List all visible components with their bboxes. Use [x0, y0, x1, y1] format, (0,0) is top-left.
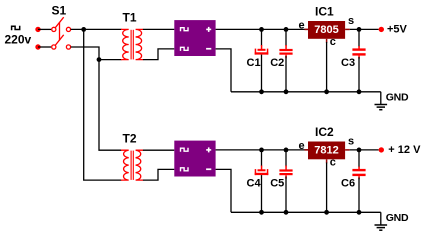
transformer T1 [121, 29, 143, 59]
voltage regulator IC1 7805 [305, 21, 350, 43]
svg-text:7812: 7812 [314, 145, 338, 157]
junction at IC2 output / C6 [357, 148, 362, 153]
junction on +rail2 at C5 [284, 148, 289, 153]
junction node A on top primary wire [81, 27, 86, 32]
wire: T1 secondary bottom to bridge input [143, 49, 174, 60]
wire: C3 bottom lead [358, 57, 360, 92]
junction on ground rail at C2 [284, 89, 289, 94]
junction on +rail at C2 [284, 27, 289, 32]
wire: C3 top lead [358, 29, 360, 46]
svg-text:C6: C6 [341, 177, 355, 189]
svg-text:C1: C1 [247, 57, 261, 69]
capacitor C5 [279, 166, 292, 179]
wire: C6 top lead [358, 150, 360, 167]
bridge rectifier BR2 [174, 141, 215, 177]
junction on ground rail at C1 [259, 89, 264, 94]
ground symbol GND2 [375, 212, 388, 230]
svg-text:C5: C5 [270, 177, 284, 189]
wire: C2 top lead [285, 29, 287, 46]
svg-text:C2: C2 [270, 57, 284, 69]
wire: C1 bottom lead [261, 55, 263, 92]
node: AC input terminal top (red dot) [35, 27, 40, 32]
svg-text:T2: T2 [123, 131, 137, 145]
svg-text:IC1: IC1 [315, 4, 334, 18]
capacitor C6 [352, 167, 365, 180]
capacitor C2 [279, 45, 292, 58]
svg-text:e: e [299, 140, 305, 152]
wire: bridge + output rail to IC1 input [216, 28, 308, 30]
junction on ground rail 2 at C5 [284, 210, 289, 215]
node: +12V output terminal (red dot) [379, 147, 384, 152]
svg-text:S1: S1 [52, 4, 67, 18]
wire: bridge - output down to ground rail [216, 49, 231, 92]
wire: C5 bottom lead [285, 177, 287, 213]
wire: bridge 2 - output down to ground rail 2 [216, 169, 231, 212]
svg-text:C3: C3 [341, 57, 355, 69]
svg-text:s: s [348, 15, 354, 27]
wire: node B to T1 primary bottom [99, 59, 122, 61]
wire: T1 secondary top to bridge input [143, 28, 174, 30]
node: +5V output terminal (red dot) [379, 27, 384, 32]
svg-text:IC2: IC2 [315, 125, 334, 139]
voltage regulator IC2 7812 [305, 142, 350, 164]
junction on +rail at C1 [259, 27, 264, 32]
transformer T2 [121, 150, 143, 180]
wire: C4 top lead [261, 150, 263, 166]
wire: T2 secondary top to bridge 2 input [143, 149, 174, 151]
svg-text:+ 12 V: + 12 V [388, 144, 421, 156]
svg-text:7805: 7805 [314, 24, 338, 36]
ground symbol GND1 [375, 92, 388, 110]
capacitor C3 [352, 46, 365, 59]
wire: IC1 common pin to ground rail [326, 42, 328, 92]
AC source tilde symbol [12, 26, 20, 31]
capacitor C4 (electrolytic) [255, 166, 269, 176]
switch S1 (DPST) [52, 17, 71, 49]
bridge rectifier BR1 [174, 20, 215, 56]
wire: IC1 output to +5V terminal [350, 28, 379, 30]
wire: switch pole1 contact to T1 primary top [71, 28, 122, 30]
wire: IC2 output to +12V terminal [350, 149, 379, 151]
wire: bridge 2 + output rail to IC2 input [216, 149, 308, 151]
wire: C2 bottom lead [285, 56, 287, 92]
wire: node A down to T2 primary bottom [84, 29, 122, 180]
node: AC input terminal bottom (red dot) [35, 44, 40, 49]
wire: bottom input dot to switch pole 2 [38, 46, 51, 48]
junction at IC1 output / C3 [357, 27, 362, 32]
wire: top input dot to switch pole 1 [38, 28, 51, 30]
wire: switch pole2 contact toward T1 primary bottom [71, 47, 99, 60]
svg-text:T1: T1 [123, 10, 137, 24]
wire: T2 secondary bottom to bridge 2 input [143, 169, 174, 180]
svg-text:+5V: +5V [387, 24, 408, 36]
svg-text:C4: C4 [247, 177, 262, 189]
junction on ground rail at C3 [357, 89, 362, 94]
wire: ground rail of top circuit [231, 91, 381, 93]
junction on ground rail at IC1 common [324, 89, 329, 94]
wire: C1 top lead [261, 29, 263, 45]
wire: C5 top lead [285, 150, 287, 167]
junction on ground rail 2 at C4 [259, 210, 264, 215]
capacitor C1 (electrolytic) [255, 45, 269, 55]
junction on ground rail 2 at C6 [357, 210, 362, 215]
svg-text:220v: 220v [5, 33, 32, 47]
svg-text:GND: GND [386, 92, 409, 104]
wire: IC2 common pin to ground rail 2 [326, 163, 328, 213]
wire: C6 bottom lead [358, 178, 360, 213]
junction on +rail2 at C4 [259, 148, 264, 153]
junction on ground rail 2 at IC2 common [324, 210, 329, 215]
svg-text:s: s [348, 135, 354, 147]
wire: ground rail of bottom circuit [231, 211, 381, 213]
wire: C4 bottom lead [261, 175, 263, 212]
svg-text:GND: GND [386, 212, 409, 224]
svg-text:e: e [299, 19, 305, 31]
junction node B at T1 primary bottom [97, 57, 102, 62]
wire: node B down to T2 primary top [99, 60, 122, 151]
